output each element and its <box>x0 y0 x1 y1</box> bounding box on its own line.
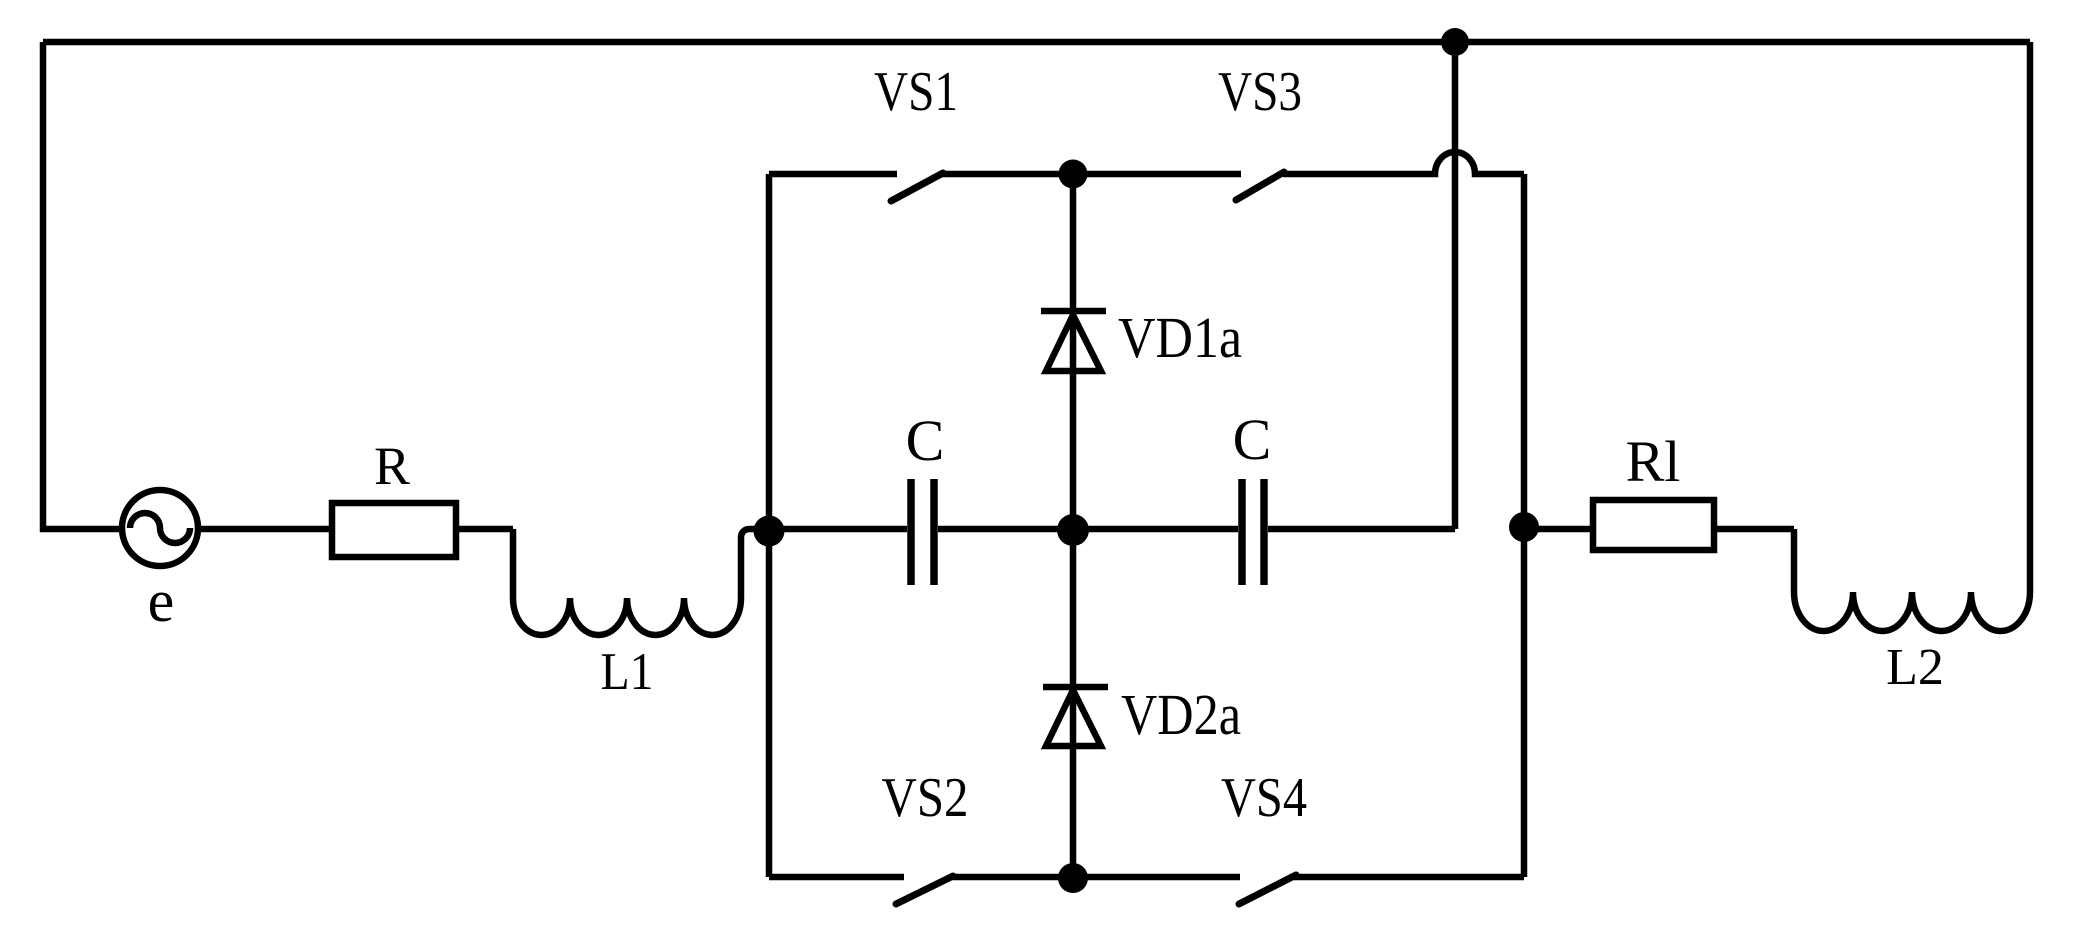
wire R1 to L2 <box>1714 526 1794 533</box>
svg-text:L2: L2 <box>1886 639 1944 696</box>
resistor R <box>332 503 456 557</box>
thyristor VS1 blade <box>891 173 943 201</box>
svg-text:VS1: VS1 <box>874 61 958 123</box>
inductor L2 <box>1794 529 2030 631</box>
node mid center <box>1057 514 1089 546</box>
wire bridge top-right segment with crossover hop <box>1283 152 1524 174</box>
wire right branch down to L2 <box>2027 42 2034 592</box>
wire top bus <box>43 39 2030 46</box>
node mid right <box>1509 512 1539 542</box>
wire R to L1 <box>456 526 513 533</box>
thyristor VS2 blade <box>896 876 953 904</box>
diode VD2a triangle <box>1046 690 1101 746</box>
wire riser to top junction <box>1452 42 1459 529</box>
resistor R1 <box>1593 500 1714 550</box>
svg-text:C: C <box>906 408 945 473</box>
wire bridge bottom-left segment <box>769 874 904 881</box>
svg-text:e: e <box>148 568 175 634</box>
node top junction <box>1441 28 1469 56</box>
wire right node to R1 <box>1524 526 1593 533</box>
svg-text:VS3: VS3 <box>1218 61 1302 123</box>
wire center column <box>1070 174 1077 877</box>
wire bridge top-left segment <box>769 171 897 178</box>
diode VD2a cathode bar <box>1043 684 1108 691</box>
svg-text:Rl: Rl <box>1626 429 1681 494</box>
svg-text:L1: L1 <box>601 643 654 701</box>
wire bridge right rail <box>1521 174 1528 877</box>
wire C right to riser corner <box>1268 526 1455 533</box>
diode VD1a triangle <box>1046 315 1101 371</box>
wire mid-left node to capacitor C left <box>769 526 907 533</box>
inductor L1 <box>513 529 769 635</box>
svg-text:VD2a: VD2a <box>1121 682 1241 747</box>
svg-text:VS4: VS4 <box>1221 767 1307 829</box>
thyristor VS3 blade <box>1236 172 1284 200</box>
thyristor VS4 blade <box>1239 875 1296 904</box>
wire bridge bottom-middle segment <box>950 874 1240 881</box>
wire bridge left rail <box>766 174 773 877</box>
sine wave inside source <box>130 513 190 543</box>
diode VD1a cathode bar <box>1041 308 1106 315</box>
wire between capacitors <box>938 526 1238 533</box>
svg-text:R: R <box>374 436 410 496</box>
voltage source e <box>122 490 198 566</box>
node bottom center <box>1058 863 1088 893</box>
wire bridge bottom-right segment <box>1290 874 1524 881</box>
capacitor C right plates <box>1242 479 1264 585</box>
svg-text:VD1a: VD1a <box>1118 305 1242 370</box>
wire bridge top-middle segment <box>940 171 1241 178</box>
wire left branch down to source e <box>43 42 122 529</box>
capacitor C left plates <box>911 479 934 585</box>
node bridge top center <box>1059 160 1088 189</box>
svg-text:C: C <box>1233 407 1272 472</box>
svg-text:VS2: VS2 <box>882 767 969 829</box>
node mid left <box>754 516 785 547</box>
wire e to R <box>198 526 332 533</box>
